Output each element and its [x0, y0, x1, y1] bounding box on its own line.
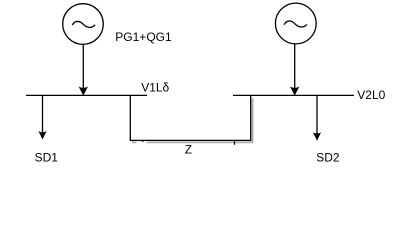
transmission line Z (U-shaped connector bus1 to bus2) [130, 95, 250, 140]
tick on line Z at x=234.5 [234, 141, 236, 145]
svg-text:Z: Z [185, 143, 192, 157]
load SD2 arrow [313, 95, 321, 140]
tick on line Z at x=142.7 [142, 141, 144, 142]
shadow of line Z (grey) [132, 98, 254, 142]
svg-text:V1Lδ: V1Lδ [141, 81, 169, 95]
svg-text:SD1: SD1 [35, 151, 59, 165]
generator G2 (AC source circle) [275, 3, 316, 44]
svg-text:SD2: SD2 [316, 151, 340, 165]
bus 2 (node V2) [233, 94, 354, 96]
svg-text:V2L0: V2L0 [357, 88, 385, 102]
bus 1 (node V1) [26, 94, 147, 96]
wire: generator G2 stem with arrow into bus 2 [290, 44, 299, 96]
load SD1 arrow [38, 95, 46, 139]
wire: generator G1 stem with arrow into bus 1 [79, 44, 88, 95]
svg-text:PG1+QG1: PG1+QG1 [115, 30, 172, 44]
generator G1 (AC source circle) [63, 4, 104, 45]
